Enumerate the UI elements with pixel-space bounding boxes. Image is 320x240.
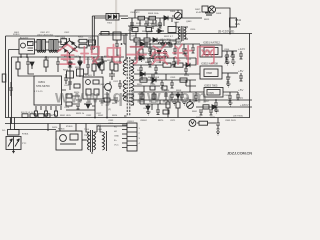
resistor R33 [104, 98, 110, 102]
capacitor C64 [216, 118, 220, 131]
svg-text:R803: R803 [78, 37, 84, 39]
resistor R21 [67, 71, 74, 78]
svg-text:D806: D806 [170, 11, 176, 13]
wire standby right [119, 16, 128, 19]
wire bottom right [197, 122, 216, 124]
capacitor C822 [164, 94, 168, 96]
wire top rail y18 [128, 17, 202, 19]
wire top right [216, 8, 230, 34]
wire AC to filter [35, 42, 38, 50]
svg-text:C810: C810 [190, 29, 196, 31]
resistor R2 [30, 114, 36, 118]
resistor R808 [168, 27, 176, 33]
wire rail y26 [128, 25, 162, 27]
rail y35 right of bridge [98, 34, 128, 36]
resistor R802 [149, 16, 156, 20]
diode D53 [140, 72, 145, 76]
main rail B+ [99, 33, 252, 35]
capacitor C878 [180, 92, 184, 100]
wire y104 segs [140, 100, 170, 112]
inductor L4 [103, 131, 107, 151]
svg-text:R871: R871 [210, 117, 216, 119]
wire out rail y107 [196, 106, 252, 108]
svg-text:R851: R851 [145, 62, 151, 64]
svg-text:T805: T805 [96, 125, 102, 127]
capacitor C34 [86, 62, 90, 70]
resistor R22 [77, 69, 84, 76]
svg-text:7805: 7805 [208, 91, 214, 95]
capacitor C816 [168, 40, 172, 48]
resistor R37 [44, 60, 48, 67]
capacitor C75 [239, 76, 243, 81]
resistor R801 [138, 16, 145, 20]
svg-text:C805: C805 [88, 38, 94, 40]
capacitor C21 [68, 82, 72, 84]
svg-text:L803: L803 [108, 123, 114, 125]
capacitor C52 [173, 44, 177, 54]
scan streak [115, 0, 117, 44]
resistor R61 [199, 121, 208, 125]
svg-text:1 2 3 4 5: 1 2 3 4 5 [34, 91, 43, 93]
capacitor C60 [228, 92, 232, 101]
svg-text:D801-4: D801-4 [62, 39, 70, 41]
svg-text:IC801: IC801 [38, 80, 45, 84]
svg-text:R823 1k: R823 1k [76, 113, 85, 115]
svg-text:M: M [188, 130, 190, 132]
svg-text:AC220V: AC220V [20, 37, 29, 40]
capacitor C59 [226, 73, 230, 82]
wire c3 [84, 57, 94, 76]
wire center verticals [95, 57, 112, 118]
posistor PTC1 [6, 137, 21, 153]
svg-text:S801: S801 [14, 32, 20, 34]
capacitor C36 [56, 57, 60, 68]
wire drops right band [142, 58, 196, 110]
watermark line 1 [58, 45, 214, 65]
svg-text:C807: C807 [128, 30, 134, 32]
svg-text:+5V: +5V [238, 88, 243, 92]
resistor R80x on rail [101, 32, 109, 36]
svg-text:C802: C802 [64, 32, 70, 34]
resistor R12 under IC [35, 111, 38, 116]
wire rail y86 [134, 80, 190, 92]
wire reg1 out [222, 50, 237, 52]
wire filter link [46, 42, 50, 50]
left mid resistor R15 [2, 74, 6, 82]
resistor R827 [175, 63, 183, 67]
transformer T4 left winding [88, 132, 90, 150]
ground G22 [231, 62, 236, 65]
capacitor C76 [236, 95, 240, 100]
ground G23 [226, 84, 231, 87]
svg-text:R810: R810 [136, 23, 142, 25]
svg-text:(P): (P) [108, 109, 111, 111]
svg-text:R815: R815 [63, 70, 69, 72]
resistor R803a [79, 39, 87, 43]
wire mid links [159, 40, 176, 58]
wire misc right [216, 51, 241, 110]
diode D54 [212, 105, 217, 109]
svg-text:R870: R870 [158, 120, 164, 122]
resistor R803b [79, 44, 87, 48]
svg-text:PTC: PTC [22, 143, 27, 145]
svg-text:D854: D854 [137, 70, 143, 72]
svg-text:L801 C803 L802: L801 C803 L802 [37, 35, 54, 37]
transistor Q3 [103, 82, 111, 93]
resistor R862 [150, 86, 155, 90]
svg-text:C806 472: C806 472 [130, 12, 140, 14]
svg-text:R816: R816 [75, 67, 81, 69]
capacitor C74 [239, 54, 243, 59]
svg-text:IC852 KA7808: IC852 KA7808 [201, 62, 218, 66]
diode D33 [30, 62, 34, 69]
svg-text:C871: C871 [170, 120, 176, 122]
capacitor C51 [148, 44, 152, 56]
svg-text:+12V: +12V [238, 47, 245, 51]
resistor R25 [100, 62, 104, 70]
fuse F1 [22, 114, 28, 118]
regulator IC53 [204, 88, 223, 98]
connector CN1 [122, 123, 137, 151]
svg-text:C816: C816 [64, 107, 70, 109]
capacitor C802 [144, 20, 148, 29]
svg-text:7808: 7808 [206, 71, 212, 75]
resistor R14 under IC [55, 111, 58, 116]
resistor R836 [176, 102, 180, 108]
svg-text:C851: C851 [147, 47, 153, 49]
capacitor C57 [172, 58, 176, 67]
capacitor C1 [46, 114, 50, 118]
ground G13 [146, 112, 151, 115]
svg-text:DG: DG [2, 130, 6, 132]
wire left vertical rail 1 [5, 36, 7, 118]
svg-text:C812: C812 [113, 81, 119, 83]
transformer T1 secondary winding [131, 60, 134, 105]
svg-text:T803: T803 [176, 42, 182, 44]
resistor R834 [152, 94, 156, 99]
ground G26 [172, 102, 177, 105]
transformer T4 core [91, 130, 93, 152]
svg-text:C864: C864 [214, 111, 220, 113]
ground G25 [214, 110, 219, 113]
resistor R11 [16, 62, 20, 69]
svg-text:R811: R811 [235, 18, 242, 22]
connector J1 AC input box [19, 39, 35, 54]
wire bottom bus 1 [5, 117, 250, 119]
svg-text:R842: R842 [98, 115, 104, 117]
svg-text:R856: R856 [184, 75, 190, 77]
resistor R833 [140, 94, 144, 99]
wire drops from rail y40 [130, 26, 147, 47]
svg-text:C869: C869 [224, 63, 230, 65]
ground G3 [76, 100, 82, 104]
diode D806 [156, 29, 164, 33]
capacitor C32 [114, 98, 118, 103]
svg-text:C801 472: C801 472 [40, 32, 50, 34]
wire left vertical rail 3 [11, 57, 13, 124]
svg-text:R855 C858: R855 C858 [148, 77, 160, 79]
resistor R824 [151, 49, 155, 56]
capacitor C806 main cap box [113, 32, 121, 49]
diode D31 [84, 104, 92, 108]
capacitor C63 [209, 110, 213, 115]
capacitor C801 [130, 18, 134, 30]
svg-text:T806: T806 [84, 135, 90, 137]
capacitor C821 [170, 80, 174, 88]
svg-text:C854: C854 [224, 49, 230, 51]
resistor R34 [114, 64, 118, 71]
wire bottom links [48, 124, 127, 155]
wire primary top [124, 34, 127, 61]
svg-text:CN802: CN802 [140, 120, 148, 122]
resistor R864 [163, 110, 169, 114]
resistor R51 [203, 105, 209, 109]
junction dots center [69, 33, 231, 119]
diode D52 [139, 56, 144, 60]
svg-text:GND: GND [114, 136, 119, 138]
svg-text:T801: T801 [44, 58, 50, 60]
diode D813 [186, 63, 190, 67]
diode D8 [78, 61, 82, 66]
capacitor C62 [199, 110, 203, 115]
resistor R831 [140, 78, 147, 82]
capacitor C61 [214, 100, 218, 108]
svg-text:PC801: PC801 [85, 75, 92, 77]
svg-text:+8V: +8V [238, 69, 243, 73]
capacitor C33 [118, 80, 122, 89]
capacitor C819 [154, 65, 158, 73]
resistor R835 [166, 102, 170, 108]
wire out rail y44 [136, 43, 200, 45]
resistor R36 [74, 84, 80, 88]
resistor R13 under IC [45, 111, 48, 116]
capacitor C73 [194, 92, 198, 101]
capacitor C11 [26, 58, 30, 71]
transistor Q51 [187, 100, 194, 108]
motor M1 [189, 120, 196, 127]
wire out rail y74 [134, 73, 200, 75]
svg-text:T802: T802 [107, 23, 113, 25]
regulator IC52 [200, 66, 222, 79]
capacitor C53 [182, 44, 186, 54]
svg-text:R812 4.7: R812 4.7 [164, 36, 174, 38]
ground G11 [139, 56, 144, 61]
wire out rail y58 [134, 57, 196, 59]
wire snubber branch [70, 57, 80, 90]
capacitor C818 [139, 65, 143, 75]
capacitor C58 [150, 74, 154, 83]
svg-text:1N4007: 1N4007 [148, 23, 156, 25]
wire top loop [135, 10, 182, 18]
IC U1 controller [34, 76, 62, 110]
svg-text:4148: 4148 [196, 12, 202, 14]
svg-text:D851: D851 [138, 40, 144, 42]
transformer T3 driver [176, 22, 188, 42]
bridge rectifier D801-804 [59, 38, 79, 57]
resistor R804 [96, 59, 103, 63]
svg-text:D809: D809 [74, 56, 80, 58]
resistor R32 [66, 102, 72, 106]
capacitor C815 [161, 40, 165, 48]
svg-text:RY801: RY801 [58, 129, 65, 131]
svg-text:L851 C855: L851 C855 [160, 39, 171, 41]
regulator IC51 [200, 45, 222, 57]
resistor R31 [66, 94, 72, 98]
wire relay feeds [60, 124, 87, 141]
svg-text:RT801: RT801 [22, 134, 29, 136]
capacitor C820 [160, 80, 164, 88]
diode D7 [68, 62, 72, 67]
svg-text:L802: L802 [55, 36, 61, 38]
svg-text:RY801: RY801 [66, 126, 73, 128]
wire sub rail y47 [130, 46, 172, 48]
transformer T4 right winding [94, 132, 96, 150]
relay RY1 [56, 131, 82, 150]
svg-text:1.2k: 1.2k [235, 22, 241, 26]
svg-text:C859: C859 [170, 77, 176, 79]
wire bottom bus 2 [5, 123, 127, 125]
resistor R805 [230, 18, 237, 27]
resistor R35 [92, 64, 96, 71]
wire drops top band [132, 18, 172, 26]
capacitor C803 [151, 20, 155, 29]
wire drops y92-y100 [142, 92, 178, 100]
svg-text:D805: D805 [157, 24, 163, 26]
wire rail y65 [134, 58, 196, 65]
svg-text:R819: R819 [107, 60, 113, 62]
resistor R807 on rail [146, 28, 152, 32]
wire left vertical rail 2 [9, 50, 20, 118]
svg-text:R813: R813 [204, 19, 210, 21]
capacitor C70 [184, 48, 188, 56]
resistor R826 [163, 63, 171, 67]
svg-text:R824: R824 [112, 115, 118, 117]
transistor Q801 [172, 10, 182, 20]
svg-text:D807: D807 [195, 9, 201, 11]
wire IC left feeds [18, 57, 34, 76]
wire links y108-117 [168, 100, 178, 118]
svg-text:Q801: Q801 [174, 22, 180, 24]
svg-text:C831: C831 [48, 115, 54, 117]
inductor L51 [158, 42, 170, 44]
ground G12 [151, 56, 156, 61]
inductor L2 line filter [49, 40, 58, 53]
wire rail y80 [134, 79, 196, 81]
transformer T1 primary winding [123, 60, 126, 101]
capacitor C26 [109, 70, 115, 80]
wire right edge rail [249, 34, 251, 118]
wire secondary stubs [122, 44, 136, 116]
svg-text:C832: C832 [86, 115, 92, 117]
svg-text:(1B 790S): (1B 790S) [233, 116, 243, 118]
svg-text:Q803: Q803 [186, 21, 192, 23]
svg-text:FU801: FU801 [13, 34, 20, 36]
diode D815 [176, 94, 180, 98]
svg-text:R841 L805: R841 L805 [60, 115, 71, 117]
svg-text:R808 100k: R808 100k [148, 13, 159, 15]
ground G9 [216, 132, 220, 135]
ground G27 [182, 102, 187, 105]
svg-text:C865 200V: C865 200V [225, 120, 236, 122]
svg-text:C833: C833 [108, 120, 114, 122]
svg-text:D820: D820 [52, 127, 58, 129]
diode D801 [162, 16, 169, 20]
resistor R26 [110, 62, 114, 70]
capacitor C804 across line [61, 39, 67, 45]
capacitor C55 [231, 51, 235, 60]
capacitor C72 [184, 66, 188, 74]
ground G4 [99, 101, 105, 105]
resistor R822 [144, 38, 150, 42]
svg-text:C868 470u: C868 470u [224, 56, 235, 58]
wire out rail y92 [134, 91, 238, 93]
wire cluster left of IC [21, 54, 27, 57]
svg-text:STR-S6709: STR-S6709 [36, 84, 50, 88]
inductor L1 line filter [37, 40, 46, 53]
svg-text:T804: T804 [84, 129, 90, 131]
diode D811 [153, 38, 157, 42]
junction dots 2 [20, 43, 122, 58]
transformer T2 standby box [106, 14, 119, 21]
diode D861 [146, 106, 150, 110]
wire c4 [46, 57, 107, 72]
svg-text:C866: C866 [224, 95, 230, 97]
svg-text:R861: R861 [192, 111, 198, 113]
wire right drop [78, 36, 99, 57]
capacitor C56 [148, 58, 152, 67]
resistor R3 [38, 114, 44, 118]
wire out rail y100 [134, 99, 252, 101]
wire center bus y57 [12, 56, 124, 58]
wire reg2 out [222, 72, 238, 74]
capacitor C54 [225, 51, 229, 62]
left mid cap C15 [9, 82, 13, 96]
svg-text:D860: D860 [196, 117, 202, 119]
svg-text:IC851 KA7812: IC851 KA7812 [203, 41, 220, 45]
capacitor C877 [170, 92, 174, 100]
labels group [2, 9, 249, 147]
resistor R832 [180, 78, 187, 82]
svg-text:(B+110V-B): (B+110V-B) [218, 30, 234, 34]
wire center links2 [66, 57, 120, 110]
svg-text:JDZJ.COM.CN: JDZJ.COM.CN [227, 151, 252, 156]
feedback enclosure U2 [83, 77, 103, 99]
wire degauss drop [11, 118, 57, 130]
diode D814 [152, 78, 156, 82]
transistor Q802 top right [202, 6, 216, 15]
capacitor C817 [163, 49, 167, 56]
wire standby verticals [89, 16, 107, 49]
capacitor C71 [191, 44, 195, 53]
diode D51 [140, 42, 145, 46]
svg-text:+180V: +180V [240, 103, 249, 107]
wire sub rail y40 [130, 39, 176, 41]
ground G21 [225, 62, 230, 65]
svg-text:C809: C809 [131, 36, 137, 38]
svg-text:www.jqdzw.com: www.jqdzw.com [54, 87, 208, 107]
transformer T1 main core [127, 57, 130, 116]
svg-text:R818: R818 [97, 60, 103, 62]
capacitor C35 [64, 74, 68, 84]
ground G24 [228, 103, 233, 106]
svg-text:D808: D808 [216, 13, 222, 15]
svg-text:L806: L806 [97, 129, 103, 131]
capacitor C31 [76, 104, 80, 109]
diode D812 [157, 50, 161, 55]
resistor R821 [134, 38, 140, 42]
inductor L52 [156, 56, 168, 58]
wire IC pins to bus [36, 90, 66, 118]
